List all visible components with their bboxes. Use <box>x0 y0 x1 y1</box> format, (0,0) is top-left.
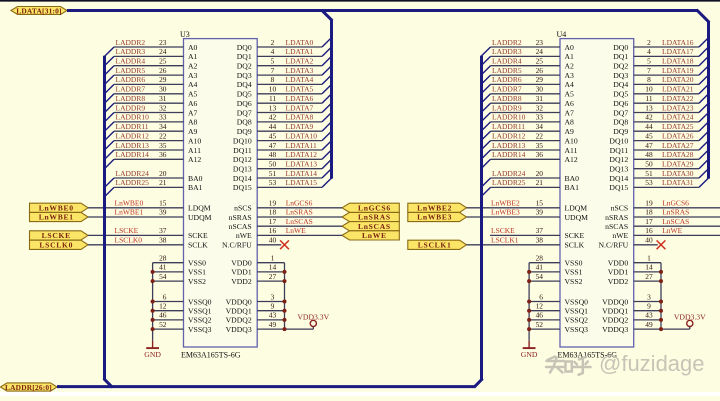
svg-text:SCKE: SCKE <box>565 231 585 240</box>
U3 pin 3 VDDQ0 wire to VDD rail <box>226 292 285 306</box>
U4 pin 15 LDQM wire net LnWBE2 <box>467 199 588 213</box>
port LSCLK0 <box>30 240 89 249</box>
svg-text:33: 33 <box>536 113 544 122</box>
svg-text:VSS1: VSS1 <box>565 268 583 277</box>
svg-text:SCKE: SCKE <box>188 231 208 240</box>
junction U4 VDD rail y=301.5 <box>659 300 663 304</box>
svg-text:15: 15 <box>159 199 167 208</box>
svg-text:nSRAS: nSRAS <box>605 213 628 222</box>
svg-text:52: 52 <box>159 320 167 329</box>
IC U4 EM63A165TS-6G body <box>560 39 634 347</box>
svg-text:LDATA28: LDATA28 <box>662 150 694 159</box>
bus LDATA[31:0] top horizontal <box>67 9 698 12</box>
U3 pin 42 DQ8 wire net LDATA8 <box>237 113 332 127</box>
svg-text:51: 51 <box>269 169 277 178</box>
svg-text:LADDR3: LADDR3 <box>492 47 522 56</box>
U3 pin 13 DQ7 wire net LDATA7 <box>237 103 332 117</box>
svg-text:26: 26 <box>159 66 167 75</box>
svg-text:LADDR14: LADDR14 <box>116 150 150 159</box>
svg-text:VDDQ0: VDDQ0 <box>602 297 628 306</box>
U4 pin 30 A5 wire net LADDR7 <box>481 85 574 104</box>
svg-text:9: 9 <box>271 302 275 311</box>
svg-text:LADDR12: LADDR12 <box>492 131 526 140</box>
svg-text:43: 43 <box>645 311 653 320</box>
junction U4 VDD rail y=319.9 <box>659 318 663 322</box>
svg-text:DQ2: DQ2 <box>237 62 252 71</box>
svg-text:LnGCS6: LnGCS6 <box>662 199 689 208</box>
svg-text:DQ13: DQ13 <box>609 165 628 174</box>
svg-text:LDQM: LDQM <box>188 204 211 213</box>
svg-text:LnSCAS: LnSCAS <box>358 222 391 231</box>
svg-text:GND: GND <box>521 350 538 359</box>
U3 pin 16 nWE wire net LnWE <box>236 226 342 240</box>
svg-text:39: 39 <box>536 208 544 217</box>
U4 pin 43 VDDQ2 wire to VDD rail <box>602 311 661 325</box>
svg-text:50: 50 <box>269 160 277 169</box>
port LDATA[31:0] (top left) <box>11 7 67 15</box>
svg-text:LnWBE2: LnWBE2 <box>417 204 452 213</box>
svg-text:13: 13 <box>269 103 277 112</box>
svg-text:16: 16 <box>269 226 277 235</box>
port LnWE (mid) <box>342 231 399 240</box>
U3 pin 52 VSSQ3 wire to GND rail <box>153 320 212 334</box>
svg-text:4: 4 <box>271 47 275 56</box>
junction U4 GND rail y=319.9 <box>527 318 531 322</box>
svg-text:21: 21 <box>159 178 167 187</box>
svg-text:7: 7 <box>271 66 275 75</box>
svg-text:32: 32 <box>536 103 544 112</box>
U3 pin 39 UDQM wire net LnWBE1 <box>88 208 212 222</box>
svg-text:LDATA18: LDATA18 <box>662 57 694 66</box>
svg-text:VDD0: VDD0 <box>608 259 629 268</box>
bus corner top-right (LDATA to U4) <box>697 10 710 23</box>
svg-text:LDATA0: LDATA0 <box>286 38 314 47</box>
U3 pin 26 A3 wire net LADDR5 <box>105 66 198 85</box>
svg-text:A4: A4 <box>188 80 198 89</box>
svg-text:LADDR2: LADDR2 <box>116 38 146 47</box>
svg-text:DQ11: DQ11 <box>233 146 252 155</box>
svg-text:LADDR11: LADDR11 <box>492 122 525 131</box>
svg-text:LDATA29: LDATA29 <box>662 160 694 169</box>
svg-text:33: 33 <box>159 113 167 122</box>
svg-text:19: 19 <box>269 199 277 208</box>
U3 pin 53 DQ15 wire net LDATA15 <box>233 178 332 192</box>
svg-text:11: 11 <box>269 94 276 103</box>
svg-text:5: 5 <box>271 57 275 66</box>
U3 pin 8 DQ4 wire net LDATA4 <box>237 75 332 89</box>
svg-text:47: 47 <box>269 141 277 150</box>
svg-text:VDD0: VDD0 <box>231 259 252 268</box>
svg-text:4: 4 <box>647 47 651 56</box>
svg-text:LnSCAS: LnSCAS <box>286 217 313 226</box>
junction U4 VDD rail y=310.7 <box>659 309 663 313</box>
svg-text:VDDQ3: VDDQ3 <box>226 325 252 334</box>
port LSCKE <box>30 231 89 240</box>
svg-text:LADDR9: LADDR9 <box>116 103 146 112</box>
U4 pin 31 A6 wire net LADDR8 <box>481 94 574 113</box>
svg-text:LSCKE: LSCKE <box>42 231 71 240</box>
svg-text:DQ14: DQ14 <box>233 174 252 183</box>
svg-text:2: 2 <box>647 38 651 47</box>
svg-text:DQ11: DQ11 <box>610 146 629 155</box>
power symbol VDD3.3V (U4) <box>674 312 706 329</box>
svg-text:LADDR4: LADDR4 <box>492 57 522 66</box>
port LSCLK1 <box>408 240 467 249</box>
bus LDATA vertical right of U4 <box>707 22 710 179</box>
svg-text:41: 41 <box>159 263 167 272</box>
svg-text:LADDR12: LADDR12 <box>116 131 150 140</box>
svg-text:LDATA14: LDATA14 <box>286 169 318 178</box>
U4 pin 11 DQ6 wire net LDATA22 <box>613 94 708 108</box>
junction U3 GND rail y=301.5 <box>151 300 155 304</box>
svg-text:22: 22 <box>536 131 544 140</box>
svg-text:LnSRAS: LnSRAS <box>358 213 391 222</box>
svg-text:37: 37 <box>159 226 167 235</box>
svg-text:VDDQ2: VDDQ2 <box>602 316 628 325</box>
U3 pin 2 DQ0 wire net LDATA0 <box>237 38 332 52</box>
svg-text:nSCAS: nSCAS <box>605 222 628 231</box>
svg-text:LDATA17: LDATA17 <box>662 47 694 56</box>
port LnSRAS (mid) <box>342 212 399 221</box>
U4 pin 9 VDDQ1 wire to VDD rail <box>602 302 661 316</box>
U4 pin 1 VDD0 wire to VDD rail <box>608 254 661 268</box>
port LnGCS6 (mid) <box>342 203 399 212</box>
U3 pin 34 A9 wire net LADDR11 <box>105 122 198 141</box>
svg-text:49: 49 <box>269 320 277 329</box>
svg-text:LDATA7: LDATA7 <box>286 103 314 112</box>
junction U3 GND rail y=310.7 <box>151 309 155 313</box>
svg-text:48: 48 <box>269 150 277 159</box>
svg-text:44: 44 <box>269 122 277 131</box>
svg-text:A11: A11 <box>188 146 201 155</box>
U3 pin 21 BA1 wire net LADDR25 <box>105 178 203 197</box>
U4 pin 37 SCKE wire net LSCKE <box>490 226 584 240</box>
svg-text:A9: A9 <box>188 127 198 136</box>
svg-text:DQ12: DQ12 <box>609 155 628 164</box>
junction U3 VDD rail y=310.7 <box>283 309 287 313</box>
svg-text:17: 17 <box>269 217 277 226</box>
U3 pin 41 VSS1 wire to GND rail <box>153 263 207 277</box>
svg-text:1: 1 <box>647 254 651 263</box>
svg-text:DQ9: DQ9 <box>613 127 628 136</box>
svg-text:LDATA[31:0]: LDATA[31:0] <box>16 6 61 15</box>
U4 pin 12 VSSQ1 wire to GND rail <box>529 302 588 316</box>
junction U4 VDD rail y=329.1 <box>659 327 663 331</box>
svg-text:DQ0: DQ0 <box>613 43 628 52</box>
wire VDD rail vertical U4 <box>660 263 662 329</box>
svg-text:DQ15: DQ15 <box>233 183 252 192</box>
svg-text:LADDR6: LADDR6 <box>492 75 522 84</box>
svg-text:N.C/RFU: N.C/RFU <box>222 241 252 250</box>
U3 pin 23 A0 wire net LADDR2 <box>105 38 198 57</box>
U3 pin 20 BA0 wire net LADDR24 <box>105 169 203 188</box>
U3 pin 40 N.C/RFU no-connect <box>222 236 281 250</box>
svg-text:BA0: BA0 <box>188 174 203 183</box>
svg-text:42: 42 <box>269 113 277 122</box>
power symbol VDD3.3V (U3) <box>297 312 329 329</box>
svg-text:A6: A6 <box>188 99 198 108</box>
svg-text:LDATA15: LDATA15 <box>286 178 318 187</box>
svg-text:LSCKE: LSCKE <box>491 226 515 235</box>
U3 pin 22 A10 wire net LADDR12 <box>105 131 202 150</box>
U4 pin 47 DQ11 wire net LDATA27 <box>610 141 709 155</box>
U3 pin 10 DQ5 wire net LDATA5 <box>237 84 332 98</box>
svg-text:VSSQ3: VSSQ3 <box>565 325 589 334</box>
U3 pin 4 DQ1 wire net LDATA1 <box>237 47 332 61</box>
IC U3 EM63A165TS-6G body <box>184 39 258 347</box>
junction U4 GND rail y=329.1 <box>527 327 531 331</box>
svg-text:6: 6 <box>163 292 167 301</box>
U4 pin 42 DQ8 wire net LDATA24 <box>613 113 708 127</box>
svg-text:46: 46 <box>536 311 544 320</box>
svg-text:DQ5: DQ5 <box>613 90 628 99</box>
svg-text:14: 14 <box>269 263 277 272</box>
svg-text:VDD1: VDD1 <box>231 268 252 277</box>
U3 pin 29 A4 wire net LADDR6 <box>105 75 198 94</box>
svg-text:18: 18 <box>645 208 653 217</box>
U3 pin 15 LDQM wire net LnWBE0 <box>88 199 211 213</box>
U4 pin 13 DQ7 wire net LDATA23 <box>613 103 708 117</box>
svg-text:51: 51 <box>645 169 653 178</box>
svg-text:A7: A7 <box>565 108 575 117</box>
svg-text:nSCS: nSCS <box>234 204 252 213</box>
U4 pin 49 VDDQ3 wire to VDD rail <box>602 320 690 334</box>
svg-text:A12: A12 <box>188 155 201 164</box>
U4 pin 7 DQ3 wire net LDATA19 <box>613 66 708 80</box>
svg-text:12: 12 <box>536 302 544 311</box>
svg-text:DQ3: DQ3 <box>237 71 252 80</box>
U4 pin 6 VSSQ0 wire to GND rail <box>529 292 588 306</box>
U4 pin 14 VDD1 wire to VDD rail <box>608 263 661 277</box>
svg-text:LADDR8: LADDR8 <box>116 94 146 103</box>
svg-text:UDQM: UDQM <box>188 213 212 222</box>
U4 pin 5 DQ2 wire net LDATA18 <box>613 56 708 70</box>
svg-text:LADDR7: LADDR7 <box>116 85 146 94</box>
U3 pin 9 VDDQ1 wire to VDD rail <box>226 302 285 316</box>
svg-text:A12: A12 <box>565 155 578 164</box>
U3 pin 31 A6 wire net LADDR8 <box>105 94 198 113</box>
svg-text:SCLK: SCLK <box>188 241 208 250</box>
U4 pin 8 DQ4 wire net LDATA20 <box>613 75 708 89</box>
svg-text:LDATA16: LDATA16 <box>662 38 694 47</box>
svg-text:18: 18 <box>269 208 277 217</box>
U4 pin 39 UDQM wire net LnWBE3 <box>467 208 589 222</box>
svg-text:VSSQ2: VSSQ2 <box>188 316 212 325</box>
svg-text:DQ4: DQ4 <box>237 80 252 89</box>
U3 pin 7 DQ3 wire net LDATA3 <box>237 66 332 80</box>
svg-text:VSSQ0: VSSQ0 <box>565 297 589 306</box>
svg-text:23: 23 <box>536 38 544 47</box>
svg-text:VSS0: VSS0 <box>565 259 583 268</box>
U4 pin 19 nSCS wire net LnGCS6 <box>611 199 720 213</box>
svg-text:LADDR5: LADDR5 <box>116 66 146 75</box>
U3 pin 49 VDDQ3 wire to VDD rail <box>226 320 314 334</box>
junction U3 GND rail y=319.9 <box>151 318 155 322</box>
U4 pin 35 A11 wire net LADDR13 <box>481 141 578 160</box>
svg-text:DQ0: DQ0 <box>237 43 252 52</box>
svg-text:38: 38 <box>159 236 167 245</box>
svg-text:29: 29 <box>159 75 167 84</box>
svg-text:LDATA8: LDATA8 <box>286 113 314 122</box>
svg-text:26: 26 <box>536 66 544 75</box>
U4 pin 25 A2 wire net LADDR4 <box>481 57 574 76</box>
svg-text:10: 10 <box>645 85 653 94</box>
svg-text:LnWBE2: LnWBE2 <box>491 199 520 208</box>
svg-text:A5: A5 <box>565 90 575 99</box>
svg-text:LDATA19: LDATA19 <box>662 66 694 75</box>
U3 pin 37 SCKE wire net LSCKE <box>88 226 208 240</box>
no-connect X U4 pin 40 <box>657 240 666 249</box>
wire VDD rail vertical U3 <box>284 263 286 329</box>
svg-text:7: 7 <box>647 66 651 75</box>
svg-text:VDD1: VDD1 <box>608 268 629 277</box>
U4 pin 21 BA1 wire net LADDR25 <box>481 178 579 197</box>
svg-text:42: 42 <box>645 113 653 122</box>
svg-text:DQ10: DQ10 <box>609 136 628 145</box>
svg-text:LnWE: LnWE <box>286 226 306 235</box>
svg-text:28: 28 <box>159 254 167 263</box>
port LADDR[26:0] (bottom left) <box>1 383 58 391</box>
U4 pin 23 A0 wire net LADDR2 <box>481 38 574 57</box>
bottom page strip <box>0 392 720 396</box>
svg-text:N.C/RFU: N.C/RFU <box>598 241 628 250</box>
svg-text:EM63A165TS-6G: EM63A165TS-6G <box>181 350 241 359</box>
U3 pin 46 VSSQ2 wire to GND rail <box>153 311 212 325</box>
svg-text:LDATA11: LDATA11 <box>286 141 317 150</box>
junction U4 GND rail y=271.9 <box>527 270 531 274</box>
svg-text:A11: A11 <box>565 146 578 155</box>
svg-text:25: 25 <box>536 57 544 66</box>
svg-text:nSCAS: nSCAS <box>229 222 252 231</box>
svg-text:LnGCS6: LnGCS6 <box>358 204 391 213</box>
svg-text:LADDR10: LADDR10 <box>492 113 526 122</box>
svg-text:22: 22 <box>159 131 167 140</box>
U4 pin 10 DQ5 wire net LDATA21 <box>613 84 708 98</box>
svg-text:SCLK: SCLK <box>565 241 585 250</box>
svg-text:20: 20 <box>159 169 167 178</box>
U4 pin 4 DQ1 wire net LDATA17 <box>613 47 708 61</box>
port LnWBE0 <box>30 203 89 212</box>
svg-text:30: 30 <box>159 85 167 94</box>
svg-text:DQ15: DQ15 <box>609 183 628 192</box>
svg-text:38: 38 <box>536 236 544 245</box>
junction U3 VDD rail y=329.1 <box>283 327 287 331</box>
U3 pin 48 DQ12 wire net LDATA12 <box>233 150 332 164</box>
svg-text:DQ8: DQ8 <box>613 118 628 127</box>
svg-text:12: 12 <box>159 302 167 311</box>
svg-text:LDATA9: LDATA9 <box>286 122 314 131</box>
U4 pin 50 DQ13 wire net LDATA29 <box>609 159 708 173</box>
svg-text:21: 21 <box>536 178 544 187</box>
svg-text:nWE: nWE <box>612 231 628 240</box>
svg-text:UDQM: UDQM <box>565 213 589 222</box>
U4 pin 20 BA0 wire net LADDR24 <box>481 169 579 188</box>
svg-text:LnGCS6: LnGCS6 <box>286 199 313 208</box>
svg-text:LDATA2: LDATA2 <box>286 57 314 66</box>
svg-text:45: 45 <box>269 131 277 140</box>
svg-text:BA0: BA0 <box>565 174 580 183</box>
svg-text:13: 13 <box>645 103 653 112</box>
svg-text:VDDQ1: VDDQ1 <box>226 307 252 316</box>
U3 pin 14 VDD1 wire to VDD rail <box>231 263 284 277</box>
svg-text:nSCS: nSCS <box>611 204 629 213</box>
svg-text:VDD3.3V: VDD3.3V <box>674 312 706 321</box>
svg-text:LADDR24: LADDR24 <box>116 169 150 178</box>
junction U4 GND rail y=301.5 <box>527 300 531 304</box>
svg-text:LDATA13: LDATA13 <box>286 160 318 169</box>
U4 pin 52 VSSQ3 wire to GND rail <box>529 320 588 334</box>
bus LADDR vertical left of U4 <box>480 56 483 380</box>
bus LADDR bottom horizontal <box>57 385 475 388</box>
bus corner bottom-left of U3 <box>104 379 113 388</box>
svg-text:VSS2: VSS2 <box>565 277 583 286</box>
svg-text:48: 48 <box>645 150 653 159</box>
U4 pin 27 VDD2 wire to VDD rail <box>608 272 661 286</box>
U3 pin 51 DQ14 wire net LDATA14 <box>233 169 332 183</box>
svg-text:35: 35 <box>159 141 167 150</box>
svg-text:23: 23 <box>159 38 167 47</box>
svg-text:35: 35 <box>536 141 544 150</box>
junction U4 VDD rail y=271.9 <box>659 270 663 274</box>
U3 pin 24 A1 wire net LADDR3 <box>105 47 198 66</box>
U3 pin 28 VSS0 wire to GND rail <box>153 254 207 268</box>
svg-text:LSCLK1: LSCLK1 <box>418 241 452 250</box>
U4 pin 28 VSS0 wire to GND rail <box>529 254 583 268</box>
svg-text:39: 39 <box>159 208 167 217</box>
svg-text:16: 16 <box>645 226 653 235</box>
svg-text:VSS2: VSS2 <box>188 277 206 286</box>
svg-text:DQ13: DQ13 <box>233 165 252 174</box>
svg-text:LADDR3: LADDR3 <box>116 47 146 56</box>
svg-text:LADDR6: LADDR6 <box>116 75 146 84</box>
svg-text:47: 47 <box>645 141 653 150</box>
U3 pin 36 A12 wire net LADDR14 <box>105 150 202 169</box>
svg-text:19: 19 <box>645 199 653 208</box>
svg-text:DQ7: DQ7 <box>237 108 252 117</box>
U3 pin 45 DQ10 wire net LDATA10 <box>233 131 332 145</box>
svg-text:LDATA20: LDATA20 <box>662 75 694 84</box>
svg-text:29: 29 <box>536 75 544 84</box>
svg-text:VDDQ1: VDDQ1 <box>602 307 628 316</box>
svg-text:LnWBE1: LnWBE1 <box>39 213 74 222</box>
svg-text:LADDR4: LADDR4 <box>116 57 146 66</box>
no-connect X U3 pin 40 <box>280 240 289 249</box>
svg-text:A7: A7 <box>188 108 198 117</box>
svg-text:DQ8: DQ8 <box>237 118 252 127</box>
svg-text:9: 9 <box>647 302 651 311</box>
wire GND rail vertical U4 <box>528 263 530 341</box>
U4 pin 18 nSRAS wire net LnSRAS <box>605 208 720 222</box>
ground symbol GND (U3) <box>144 341 161 359</box>
svg-text:LADDR9: LADDR9 <box>492 103 522 112</box>
junction U3 GND rail y=271.9 <box>151 270 155 274</box>
U4 pin 3 VDDQ0 wire to VDD rail <box>602 292 661 306</box>
U4 pin 36 A12 wire net LADDR14 <box>481 150 578 169</box>
svg-text:VSSQ1: VSSQ1 <box>565 307 589 316</box>
svg-text:DQ4: DQ4 <box>613 80 628 89</box>
svg-text:37: 37 <box>536 226 544 235</box>
svg-text:A8: A8 <box>188 118 198 127</box>
svg-text:DQ5: DQ5 <box>237 90 252 99</box>
svg-text:DQ6: DQ6 <box>237 99 252 108</box>
svg-text:53: 53 <box>645 178 653 187</box>
svg-text:LADDR13: LADDR13 <box>116 141 150 150</box>
svg-text:A0: A0 <box>188 43 198 52</box>
svg-text:LADDR7: LADDR7 <box>492 85 522 94</box>
U4 pin 29 A4 wire net LADDR6 <box>481 75 574 94</box>
U3 pin 25 A2 wire net LADDR4 <box>105 57 198 76</box>
svg-text:LSCLK0: LSCLK0 <box>115 236 143 245</box>
